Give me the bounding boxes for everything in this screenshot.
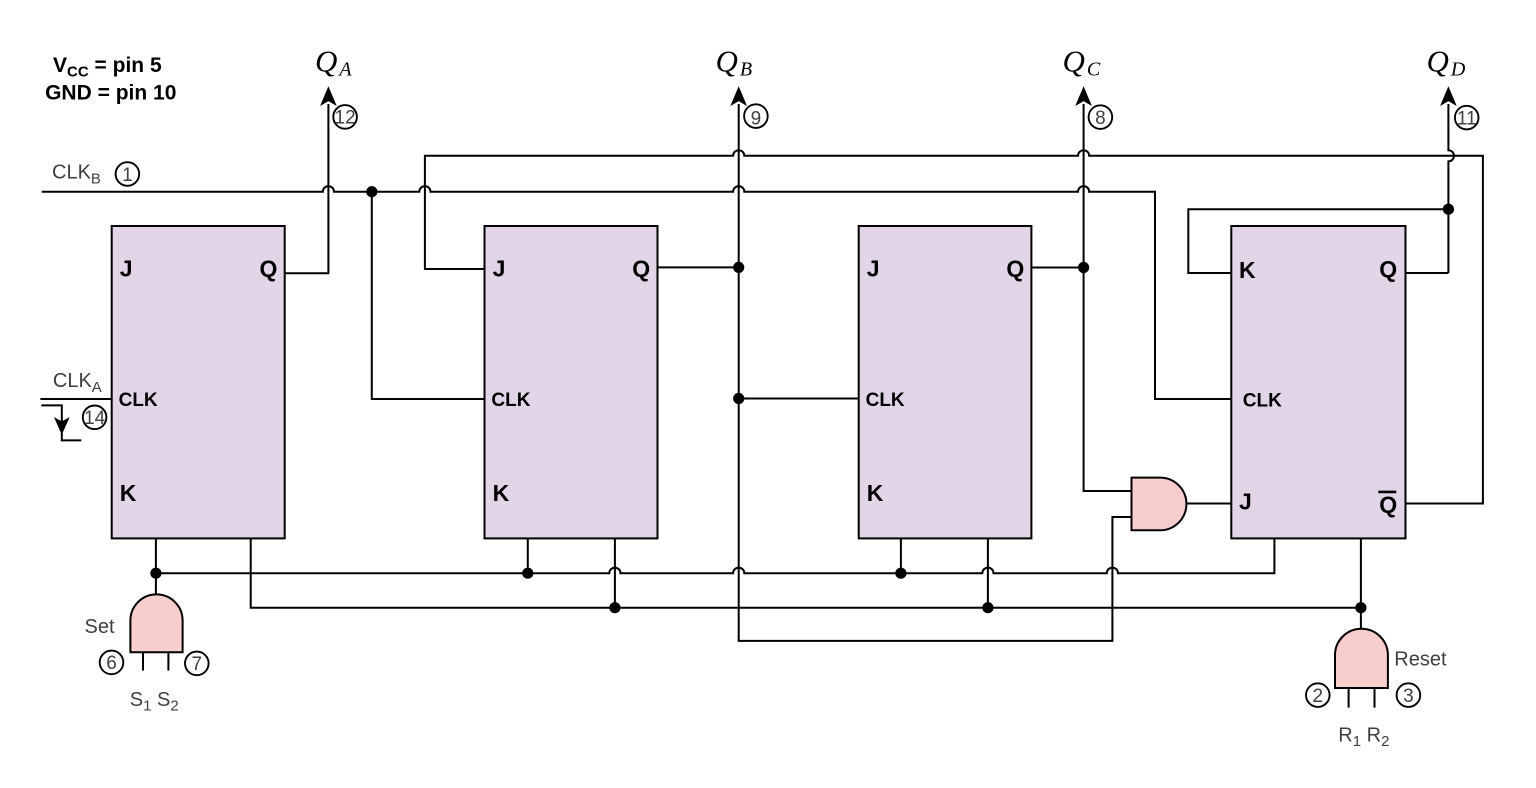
- svg-text:Set: Set: [85, 616, 115, 638]
- falling-edge symbol step waveform: [41, 405, 81, 440]
- svg-text:J: J: [867, 255, 880, 281]
- wire FF2 reset stub: [614, 538, 616, 607]
- pin number 11: [1455, 106, 1479, 130]
- svg-text:J: J: [493, 255, 506, 281]
- svg-text:K: K: [120, 480, 137, 506]
- falling-edge symbol arrowhead: [55, 418, 69, 433]
- svg-text:CLK: CLK: [866, 390, 905, 411]
- pin number 3: [1397, 683, 1421, 707]
- arrowhead QA output: [321, 88, 336, 105]
- arrowhead QB output: [731, 88, 746, 105]
- junction set at FF3 stub: [895, 568, 906, 579]
- svg-text:3: 3: [1403, 686, 1414, 707]
- Reset gate input stub R2: [1374, 688, 1376, 708]
- junction set at FF2 stub: [522, 568, 533, 579]
- wire CLKB branch to FF2 CLK: [372, 192, 485, 399]
- flip-flop FF1 (A): [112, 226, 285, 538]
- wire QB: FF2 Q output stub: [658, 266, 739, 268]
- pin number 14: [83, 406, 107, 430]
- AND gate Reset (pointing up): [1335, 629, 1388, 688]
- junction QB at FF2 Q: [733, 262, 744, 273]
- junction QB at FF3 CLK branch: [733, 393, 744, 404]
- wire CLKA input to FF1 CLK: [40, 398, 111, 400]
- svg-text:Q: Q: [632, 255, 650, 281]
- svg-text:K: K: [493, 480, 510, 506]
- wire QA: FF1 Q output to top arrow: [285, 104, 329, 273]
- svg-text:9: 9: [751, 108, 762, 129]
- AND gate U1 (J input of FF4): [1132, 478, 1187, 531]
- junction reset at FF3 stub: [982, 602, 993, 613]
- svg-text:K: K: [867, 480, 884, 506]
- wire QC: FF3 Q output stub: [1031, 267, 1083, 269]
- svg-text:K: K: [1239, 257, 1256, 283]
- svg-text:2: 2: [1313, 686, 1324, 707]
- pin number 8: [1089, 105, 1113, 129]
- pin number 7: [185, 652, 209, 676]
- arrowhead QC output: [1076, 88, 1091, 105]
- wire QD-bar feedback: Q2 J input, up, along y=155.8 to right, down to FF4 Qbar: [425, 150, 1483, 503]
- junction QD at K feedback: [1443, 204, 1454, 215]
- wire QC vertical: arrow top down to AND gate upper input: [1084, 104, 1132, 491]
- svg-text:CLK: CLK: [491, 390, 530, 411]
- wire FF4 reset stub down to Reset gate: [1360, 538, 1362, 628]
- junction reset at FF2 stub: [609, 602, 620, 613]
- wire QB branch to FF3 CLK: [739, 398, 859, 400]
- wire CLKB net: horizontal bus y=191.7 with hops, corner down to FF4 CLK: [42, 186, 1232, 399]
- pin number 12: [333, 105, 357, 129]
- svg-text:11: 11: [1457, 108, 1477, 129]
- junction QC at FF3 Q: [1078, 262, 1089, 273]
- wire AND gate output to FF4 J: [1187, 503, 1232, 505]
- svg-text:6: 6: [106, 653, 117, 674]
- svg-text:CLK: CLK: [1243, 391, 1282, 412]
- svg-text:J: J: [1239, 489, 1252, 515]
- wire QD vertical with hop over y=155.8 line: [1448, 104, 1454, 273]
- FF4 Q-bar overline: [1378, 491, 1396, 494]
- svg-text:Q: Q: [1006, 255, 1024, 281]
- junction set at FF1 stub: [150, 568, 161, 579]
- flip-flop FF2 (B): [485, 226, 658, 538]
- wire set net: horizontal y=573.2 with hops, up to FF4 bottom: [156, 538, 1275, 573]
- Reset gate input stub R1: [1348, 688, 1350, 708]
- svg-text:Q: Q: [1379, 492, 1397, 518]
- wire FF1 set stub down to Set gate: [155, 538, 157, 594]
- wire reset net: FF1 stub down then horizontal y=607.7: [251, 538, 1361, 607]
- svg-text:Reset: Reset: [1394, 649, 1447, 671]
- flip-flop FF3 (C): [859, 226, 1032, 538]
- pin number 1: [116, 162, 140, 186]
- svg-text:7: 7: [192, 654, 203, 675]
- svg-text:J: J: [120, 255, 133, 281]
- wire QB vertical: arrow top down through CLK3 junction to AND gate lower input: [739, 104, 1132, 641]
- wire FF3 set stub: [900, 538, 902, 573]
- svg-text:GND = pin 10: GND = pin 10: [45, 82, 176, 105]
- svg-text:12: 12: [335, 108, 356, 129]
- wire QD feedback to FF4 K input: [1188, 209, 1448, 273]
- pin number 6: [100, 651, 124, 675]
- arrowhead QD output: [1441, 88, 1456, 105]
- pin number 2: [1306, 683, 1330, 707]
- AND gate Set (pointing up): [130, 594, 182, 652]
- svg-text:CLK: CLK: [119, 390, 158, 411]
- Set gate input stub S2: [167, 652, 169, 670]
- svg-text:1: 1: [122, 165, 133, 186]
- svg-text:8: 8: [1095, 108, 1106, 129]
- wire FF2 set stub: [527, 538, 529, 573]
- wire QD: FF4 Q output stub: [1406, 272, 1449, 274]
- Set gate input stub S1: [142, 652, 144, 670]
- svg-text:14: 14: [84, 408, 106, 429]
- svg-text:Q: Q: [260, 255, 278, 281]
- svg-text:Q: Q: [1379, 256, 1397, 282]
- flip-flop FF4 (D): [1231, 226, 1405, 538]
- junction on CLKB at FF2 CLK branch: [366, 186, 377, 197]
- wire FF3 reset stub: [987, 538, 989, 607]
- junction reset at FF4 stub / gate output: [1355, 602, 1366, 613]
- pin number 9: [744, 104, 768, 128]
